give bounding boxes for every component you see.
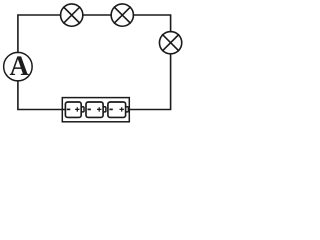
cell 1 [65, 102, 84, 117]
wire [18, 81, 66, 110]
polarity labels cell 3 [109, 107, 124, 111]
wire [133, 15, 170, 32]
lamp 3 [159, 32, 181, 54]
battery pack outer box [62, 98, 129, 122]
cell 2 [86, 102, 106, 117]
ammeter A [4, 52, 33, 81]
lamp 1 [61, 4, 83, 26]
wire [18, 15, 61, 52]
wire [129, 54, 170, 110]
polarity labels cell 1 [67, 107, 80, 111]
wire [83, 14, 111, 16]
polarity labels cell 2 [88, 107, 102, 111]
lamp 2 [111, 4, 133, 26]
cell 3 [108, 102, 128, 117]
ammeter label A [10, 56, 29, 75]
